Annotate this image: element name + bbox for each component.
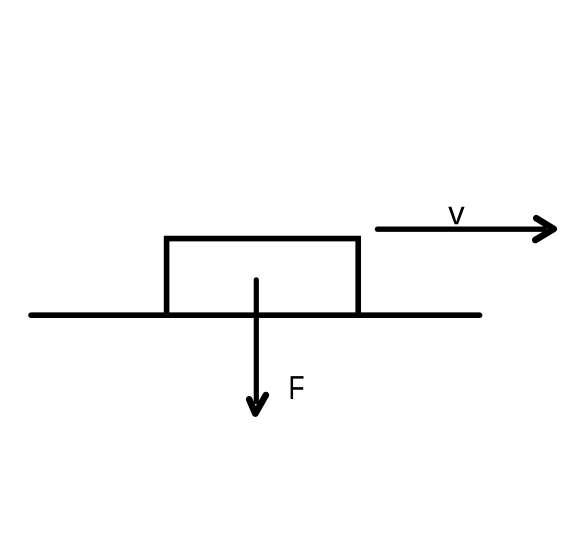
force arrow F: shaft xyxy=(254,280,259,402)
force arrow F: arrowhead xyxy=(249,395,266,414)
velocity arrow v: arrowhead xyxy=(535,218,554,240)
velocity arrow v: shaft xyxy=(378,226,545,231)
block (rectangle) xyxy=(167,239,359,316)
label F xyxy=(291,376,304,399)
label v xyxy=(448,207,464,224)
ground line xyxy=(31,312,480,318)
